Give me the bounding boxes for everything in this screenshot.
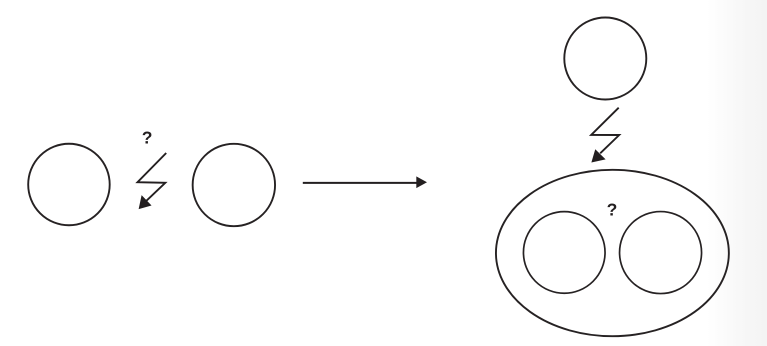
lightning arrow right (591, 108, 619, 154)
inner right circle (620, 212, 702, 294)
arrowhead left bolt (139, 196, 150, 208)
left circle (28, 144, 110, 226)
big ellipse (496, 170, 729, 336)
subtle right-edge shading (707, 0, 767, 346)
horizontal arrowhead (416, 176, 427, 188)
svg-text:?: ? (142, 128, 153, 148)
svg-text:?: ? (607, 200, 618, 220)
arrowhead right bolt (592, 150, 605, 162)
lightning arrow left (138, 153, 167, 201)
top right circle (564, 18, 646, 100)
right circle of pair (193, 144, 275, 226)
horizontal arrow (303, 182, 417, 184)
inner left circle (523, 212, 605, 294)
